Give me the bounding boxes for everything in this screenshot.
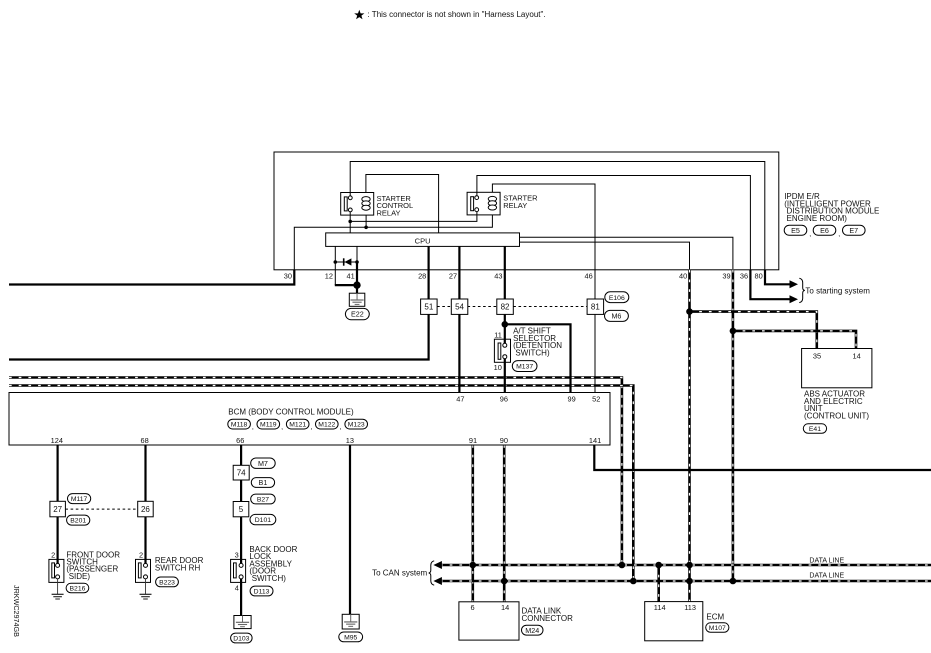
connector dashes between 51/54/82/81: [437, 306, 451, 308]
connector pin box 54: [451, 299, 468, 314]
connector pin box 74: [233, 465, 249, 480]
switch: rear door switch RH: [136, 559, 151, 582]
svg-text:,: ,: [340, 424, 342, 431]
node: BCM91 on data line: [470, 562, 477, 569]
svg-text:12: 12: [325, 272, 333, 281]
svg-text:M118: M118: [231, 422, 248, 429]
svg-text:66: 66: [236, 436, 244, 445]
wire: CPU right to pin 39: [520, 237, 733, 270]
wire: CAN branch to ABS pin 35: [690, 312, 817, 349]
wire: BCM 13 to ground M95: [349, 445, 351, 614]
wire: branch to BCM 99: [505, 324, 571, 392]
arrow: to CAN system upper: [433, 561, 442, 569]
connector pin box 27: [50, 501, 66, 517]
svg-text:,: ,: [838, 231, 840, 238]
svg-text:90: 90: [500, 436, 508, 445]
svg-text:124: 124: [51, 436, 63, 445]
svg-text:E7: E7: [849, 226, 858, 235]
wire: pin 27 through 54 to BCM 47: [458, 246, 460, 299]
switch: front door switch (passenger side): [49, 559, 64, 582]
svg-text:,: ,: [281, 424, 283, 431]
wire: DATA LINE lower: [440, 580, 931, 583]
svg-text:43: 43: [494, 272, 502, 281]
connector pin box 82: [497, 299, 514, 314]
svg-text:14: 14: [852, 352, 860, 361]
node: relay contact bus junction: [348, 220, 352, 224]
svg-text:40: 40: [679, 272, 687, 281]
svg-text:14: 14: [501, 603, 509, 612]
svg-text:96: 96: [500, 394, 508, 403]
svg-text:To starting system: To starting system: [805, 286, 870, 295]
connector pin box 51: [421, 299, 438, 314]
data link connector box: [459, 602, 519, 640]
node: E22 ground junction: [353, 281, 360, 288]
wire: pin 12 column: [334, 246, 336, 285]
node: relay coil bus junction: [364, 226, 368, 230]
wire: BCM 90 CAN to DLC 14: [503, 445, 506, 602]
arrow: to CAN system lower: [433, 577, 442, 585]
svg-text:BCM (BODY CONTROL MODULE): BCM (BODY CONTROL MODULE): [228, 408, 354, 417]
wire: pin 30 to left edge: [9, 270, 294, 285]
svg-text:82: 82: [501, 302, 510, 311]
svg-text:M119: M119: [260, 422, 277, 429]
svg-text:D113: D113: [254, 589, 270, 596]
wire: pin 40 CAN to data line / ECM 113: [688, 270, 691, 602]
ground D103: [234, 616, 251, 629]
wire: starter control relay coil bottom stub: [365, 215, 367, 227]
svg-text:M95: M95: [344, 635, 357, 642]
svg-text:JRKWC2974GB: JRKWC2974GB: [12, 585, 21, 637]
node: CAN-L wrap on data line: [630, 578, 637, 585]
svg-text:M7: M7: [258, 459, 268, 468]
wire: DATA LINE upper: [440, 564, 931, 567]
relay: STARTER CONTROL RELAY: [341, 193, 374, 216]
node: diode right junction: [355, 260, 359, 264]
svg-text:30: 30: [284, 272, 292, 281]
wire: CAN-H horizontal bus: [9, 378, 622, 566]
connector dash 27-26: [65, 508, 137, 510]
svg-text:: This connector is not shown: : This connector is not shown in "Harnes…: [368, 10, 546, 19]
connector ovals E5 E6 E7: [784, 225, 807, 235]
ground: rear door switch: [145, 579, 147, 594]
svg-text:M24: M24: [525, 626, 539, 635]
svg-text:52: 52: [592, 394, 600, 403]
svg-text:4: 4: [235, 583, 239, 592]
svg-text:3: 3: [235, 550, 239, 559]
connector ovals E106 / M6: [605, 292, 629, 303]
svg-text:74: 74: [237, 468, 246, 477]
svg-text:D101: D101: [255, 517, 271, 524]
wire: starter control relay contact bottom to CPU: [349, 210, 351, 233]
node: pin39 on data line lower: [730, 578, 737, 585]
svg-text:26: 26: [141, 505, 150, 514]
svg-text:47: 47: [456, 394, 464, 403]
relay: STARTER RELAY: [467, 192, 500, 215]
wire: starter control relay contact top to pin 80: [350, 162, 765, 270]
connector pin box 26: [138, 501, 154, 517]
wire: coil bus to pin 30 column: [294, 215, 492, 270]
wire: BCM 68 to rear door switch: [144, 445, 146, 501]
svg-text:39: 39: [722, 272, 730, 281]
ECM box: [645, 602, 703, 641]
ground E22: [349, 293, 365, 306]
svg-text:B223: B223: [159, 580, 175, 587]
svg-text:,: ,: [252, 424, 254, 431]
svg-text:E6: E6: [820, 226, 829, 235]
ground M95: [342, 614, 359, 629]
node: pin39 ABS branch: [730, 328, 737, 335]
svg-text:SWITCH): SWITCH): [515, 349, 550, 358]
wire: pin 41 to ground E22: [356, 262, 358, 293]
ground: front door switch: [57, 579, 59, 594]
svg-text:RELAY: RELAY: [377, 208, 401, 217]
svg-text:46: 46: [584, 272, 592, 281]
wire: CPU right to pin 40: [520, 242, 690, 270]
svg-text:141: 141: [589, 436, 601, 445]
wire: CAN-L horizontal bus: [9, 386, 633, 582]
svg-text:M121: M121: [289, 422, 306, 429]
svg-text:81: 81: [591, 302, 600, 311]
svg-text:5: 5: [239, 505, 244, 514]
BCM connector ovals: [228, 419, 251, 429]
svg-text:M137: M137: [516, 364, 533, 371]
svg-text:68: 68: [140, 436, 148, 445]
diode link wire: [335, 261, 357, 263]
node: ECM113 on data line lower: [686, 578, 693, 585]
svg-text:To CAN system: To CAN system: [372, 568, 427, 577]
BCM box: [9, 393, 610, 446]
svg-text:27: 27: [449, 272, 457, 281]
svg-text:28: 28: [418, 272, 426, 281]
svg-text:SWITCH RH: SWITCH RH: [155, 563, 201, 572]
svg-text:SIDE): SIDE): [69, 572, 91, 581]
svg-text:E5: E5: [791, 226, 800, 235]
wire: BCM 141 to right edge: [594, 445, 931, 470]
ABS actuator box: [802, 349, 872, 388]
svg-text:DATA LINE: DATA LINE: [809, 558, 844, 565]
svg-text:(CONTROL UNIT): (CONTROL UNIT): [804, 411, 869, 420]
svg-text:E22: E22: [351, 310, 364, 319]
node: CAN-H wrap on data line: [619, 562, 626, 569]
svg-text:CPU: CPU: [415, 236, 431, 245]
svg-text:ECM: ECM: [706, 612, 724, 621]
svg-text:CONNECTOR: CONNECTOR: [522, 614, 574, 623]
svg-text:35: 35: [813, 352, 821, 361]
svg-text:D103: D103: [233, 636, 249, 643]
svg-text:M122: M122: [318, 422, 335, 429]
svg-text:SWITCH): SWITCH): [252, 574, 287, 583]
svg-text:B1: B1: [259, 478, 268, 487]
wire: pin 43 through 82 to switch: [504, 246, 506, 299]
svg-text:,: ,: [809, 231, 811, 238]
svg-text:M117: M117: [71, 496, 88, 503]
wire: pin 80 to starting system: [765, 270, 790, 285]
wire: switch M137 to BCM 96: [504, 359, 506, 393]
svg-text:10: 10: [494, 363, 502, 372]
wire: CAN branch to ABS pin 14: [733, 331, 856, 349]
svg-text:41: 41: [346, 272, 354, 281]
svg-text:6: 6: [471, 603, 475, 612]
connector pin box 5: [233, 502, 249, 517]
note: star = connector not shown in harness layout: [354, 10, 364, 19]
svg-text:B201: B201: [70, 518, 86, 525]
svg-text:114: 114: [654, 603, 666, 612]
brace and label To CAN system: [429, 561, 435, 585]
svg-text:27: 27: [53, 505, 62, 514]
arrow: to starting system upper: [790, 280, 799, 288]
svg-text:11: 11: [494, 331, 502, 340]
svg-text:RELAY: RELAY: [503, 201, 527, 210]
wire: starter relay coil top to pin 46 column: [492, 184, 595, 270]
wire: BCM 124 to front door switch: [56, 445, 58, 501]
svg-text:91: 91: [469, 436, 477, 445]
node: BCM90 on data line: [501, 578, 508, 585]
wire: back door switch to ground D103: [240, 579, 242, 616]
svg-text:99: 99: [567, 394, 575, 403]
svg-text:113: 113: [684, 603, 696, 612]
svg-text:2: 2: [139, 550, 143, 559]
svg-text:36: 36: [740, 272, 748, 281]
node: pin40 ABS branch: [686, 308, 693, 315]
svg-text:51: 51: [424, 302, 433, 311]
svg-text:M123: M123: [348, 422, 365, 429]
wire: contact bus between relays (node A): [350, 210, 477, 222]
wire: pin 46 column below box 81: [594, 270, 596, 299]
svg-text:DATA LINE: DATA LINE: [809, 573, 844, 580]
arrow: to starting system lower: [790, 295, 799, 303]
CPU box: [326, 233, 520, 247]
wire: BCM 91 CAN to DLC 6: [471, 445, 474, 602]
wire: pin 28 through 51 to left edge: [428, 246, 430, 299]
node: pin40 on data line upper: [686, 562, 693, 569]
wire: pin 39 CAN to data line: [732, 270, 735, 581]
svg-text:2: 2: [51, 550, 55, 559]
svg-text:E106: E106: [609, 295, 625, 302]
wire: BCM 66 to back door switch: [240, 445, 242, 465]
wire: pin 12 bottom link: [335, 284, 357, 286]
svg-text:B27: B27: [257, 497, 269, 504]
svg-text:,: ,: [311, 424, 313, 431]
node: ECM114 on data line: [655, 562, 662, 569]
brace and label To starting system: [799, 278, 805, 302]
IPDM E/R box: [274, 152, 779, 270]
svg-text:80: 80: [754, 272, 762, 281]
svg-text:B216: B216: [70, 586, 86, 593]
wire: pin 36 to starting system: [750, 270, 790, 299]
svg-text:13: 13: [346, 436, 354, 445]
wire: starter relay contact top to pin 36: [477, 176, 751, 270]
svg-text:M107: M107: [709, 625, 726, 632]
wire: starter control relay coil top to CPU: [366, 175, 439, 233]
wire: ECM 114 to data line: [657, 565, 660, 602]
svg-text:M6: M6: [611, 312, 621, 321]
node: diode left junction: [334, 260, 338, 264]
connector pin box 81: [587, 299, 604, 314]
switch: back door lock assembly (door switch): [231, 559, 246, 582]
node: A/T switch branch junction: [502, 321, 509, 328]
svg-text:54: 54: [455, 302, 464, 311]
diode D (cathode left): [343, 258, 345, 265]
svg-text:ENGINE ROOM): ENGINE ROOM): [787, 214, 848, 223]
A/T shift selector (detention switch) M137: [494, 339, 510, 362]
svg-text:E41: E41: [809, 426, 821, 433]
wire: pin 41 column upper: [356, 246, 358, 262]
